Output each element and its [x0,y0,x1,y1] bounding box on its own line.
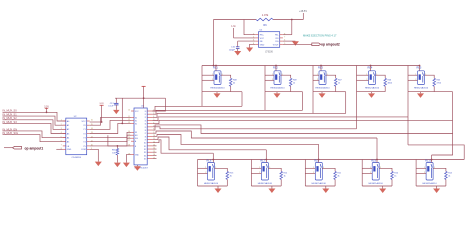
wire RL4 switch to resistor [376,75,386,78]
label C10 [229,47,236,52]
svg-text:Y4: Y4 [83,142,86,144]
svg-text:S3: S3 [135,132,137,134]
svg-text:Y2: Y2 [83,133,86,135]
wire RL6 loop left [197,160,199,187]
svg-text:14: 14 [153,148,155,150]
wire RL4 top pin [370,65,372,71]
wire M4 drop extension [407,117,409,145]
wire RL5 switch to resistor [425,75,435,78]
wire rail to U1 vcc [152,98,165,111]
wire RL5 top pin [419,65,421,71]
pin numbers RL1 [212,74,223,81]
wire RL8 coil pins [305,168,315,173]
wire mux fan top 3 [152,113,345,117]
svg-text:B: B [135,146,137,148]
svg-text:13: 13 [153,145,155,147]
wire RL7 loop left [250,160,252,187]
wire IN_MUX_EN [3,131,66,138]
pin numbers RL8 [313,167,324,174]
pin numbers RL5 [415,74,426,81]
wire RL10 loop bottom [416,185,446,187]
resistor R14 [445,171,448,186]
svg-text:S1: S1 [135,120,137,122]
pin numbers RL9 [370,167,381,174]
wire RL4 loop left [356,66,358,92]
svg-text:SIG: SIG [135,138,139,140]
svg-text:I11: I11 [144,146,146,148]
svg-text:0.1uF: 0.1uF [108,106,114,108]
label RL8 part [312,182,327,185]
svg-text:S2: S2 [135,123,137,125]
svg-text:U1: U1 [141,106,145,108]
net label IN_MUX_SIG [3,131,18,135]
wire 3.3V rail [115,97,166,99]
wire RL6 switch to resistor [215,168,228,171]
wire RL10 loop left [415,160,417,187]
ground at RG [292,41,299,46]
svg-text:4600: 4600 [388,83,393,85]
net label IN_MUX_S2 [3,116,18,120]
wire feed RL6 [212,153,214,159]
svg-text:GND: GND [135,155,140,157]
node 1.3n label [231,26,236,38]
resistor R08 [229,78,232,91]
power +48.5V [299,10,307,20]
label U5 part LT6106 [265,51,273,53]
wire RL3 loop left [312,66,314,92]
label R09 [293,80,298,85]
wire U5 pin1 input [244,20,255,35]
relay RL7 [260,159,268,180]
wire RL1 coil pins [202,75,214,80]
relay RL8 [314,159,322,180]
wire U2 bottom left [56,148,63,150]
wire U2 to U1 y138.2 [90,138,131,146]
wire RL4 coil pins [357,75,369,80]
wire RL9 coil pins [362,168,372,173]
svg-text:3: 3 [61,128,62,130]
label RL3 part [315,87,330,90]
svg-text:A3: A3 [67,132,70,135]
wire mux pin 15 tail [152,154,156,156]
wire mux pin 12 tail [152,145,156,147]
svg-text:HE3621A0510: HE3621A0510 [312,182,327,185]
svg-text:R08: R08 [233,80,238,82]
svg-text:2: 2 [366,79,367,81]
label R07 [338,80,343,85]
wire U5 HS- to rail [283,34,292,36]
svg-text:RL7: RL7 [260,159,265,163]
wire mux fan top 2 [152,110,302,114]
net label IN_MUX_S3 [3,120,18,124]
wire RL10 coil pins [416,168,426,173]
svg-text:Y5: Y5 [83,146,86,148]
svg-text:10: 10 [153,135,155,137]
resistor R12 [280,171,283,186]
svg-text:1: 1 [366,74,367,76]
wire RL2 loop left [264,66,266,92]
svg-text:5: 5 [61,136,62,138]
svg-text:R12: R12 [284,173,289,175]
wire RL8 loop left [304,160,306,187]
svg-text:1k: 1k [394,176,396,178]
svg-text:1.3n: 1.3n [231,26,236,28]
svg-text:HE3621A0510: HE3621A0510 [422,182,437,185]
wire RL2 top pin [275,65,277,71]
svg-text:I7: I7 [145,133,146,135]
wire RL1 top pin [215,65,217,71]
wire mux fan top 1 [152,106,242,111]
ground under C10 [234,51,241,56]
resistor R05 [433,78,436,91]
wire rail drop [121,98,123,124]
ground U5 GND [246,48,253,53]
svg-text:2: 2 [313,172,314,174]
svg-text:12: 12 [128,119,130,121]
svg-text:I10: I10 [144,143,146,145]
label R13 [230,173,235,178]
svg-text:4k: 4k [230,176,232,178]
wire RL9 top pin [376,159,378,163]
svg-text:1.07k: 1.07k [262,13,269,17]
svg-text:1: 1 [61,120,62,122]
svg-text:R07: R07 [338,80,343,82]
label RL10 part [422,182,437,185]
wire RL8 switch to resistor [322,168,335,171]
wire RL1 switch to resistor [221,75,231,78]
label R10 [394,173,399,178]
svg-text:R05: R05 [437,80,442,82]
wire RL7 top pin [265,159,267,163]
wire RL5 coil pins [408,75,418,80]
wire mux fan top 5 [152,120,452,123]
svg-text:12: 12 [153,141,155,143]
wire RL1 loop left [201,66,203,92]
wire mux fan top 6 [152,127,356,129]
svg-text:EN: EN [135,135,138,137]
power 3.3V [44,106,49,113]
svg-text:I8: I8 [145,136,146,138]
svg-text:FB: FB [260,41,263,43]
svg-text:2: 2 [415,79,416,81]
wire U5 pin2 [234,37,256,39]
wire RL5 loop bottom [408,91,434,93]
wire RL5 loop left [407,66,409,92]
wire mux pin 16 tail [152,158,156,160]
svg-text:6: 6 [61,140,62,142]
wire RL10 top pin [431,159,433,163]
wire mux fan bottom 8 [152,131,377,138]
svg-text:17: 17 [153,157,155,159]
svg-text:4750: 4750 [437,83,442,85]
svg-text:op ampout2: op ampout2 [321,43,340,47]
wire RL3 switch to resistor [326,75,336,78]
svg-text:HE3621A0510: HE3621A0510 [414,87,429,90]
ground RL9 [379,186,386,193]
svg-text:HE3621A0510: HE3621A0510 [270,87,285,90]
wire RL2 loop bottom [265,91,291,93]
label R65 [112,149,117,154]
label RL6 part [204,182,219,185]
wire U5 GND pin [250,44,256,47]
wire feed RL8 [318,144,320,159]
svg-text:I9: I9 [145,139,146,141]
resistor R11 [334,171,337,186]
svg-text:1: 1 [205,167,206,169]
pin numbers RL2 [272,74,283,81]
svg-text:13: 13 [128,122,130,124]
svg-text:RS: RS [276,38,280,40]
wire IN_MUX_S3 [3,123,66,133]
svg-text:A0: A0 [67,120,70,123]
svg-text:I2: I2 [145,117,146,119]
label R11 [337,173,341,178]
svg-text:HE3621A0510: HE3621A0510 [315,87,330,90]
svg-text:HS+: HS+ [260,35,265,37]
wire RL10 switch to resistor [433,168,446,171]
svg-text:1: 1 [415,74,416,76]
resistor R65 [116,146,119,163]
wire 48V relay bus [202,65,420,67]
multiplexer U1 [128,106,155,165]
svg-text:1: 1 [212,74,213,76]
comment text [303,34,337,38]
resistor R07 [334,78,337,91]
wire mux fan bottom 9 [152,135,318,145]
wire 48V top rail [214,19,304,21]
svg-text:1: 1 [272,74,273,76]
svg-text:HE3621A0510: HE3621A0510 [204,182,219,185]
svg-text:R65: R65 [112,149,117,151]
ground U2 [95,162,102,167]
wire mux pin 13 tail [152,148,156,150]
svg-text:RL9: RL9 [371,159,376,163]
svg-text:2: 2 [259,172,260,174]
wire RL2 left edge drop [264,92,266,111]
wire RL2 switch to resistor [281,75,291,78]
svg-text:VCC: VCC [260,38,265,40]
wire RL8 top pin [318,159,320,163]
svg-text:I0: I0 [145,111,146,113]
wire right feed [408,145,464,160]
svg-text:1: 1 [424,167,425,169]
svg-text:2: 2 [61,124,62,126]
wire feed RL10 [431,155,433,160]
svg-text:C10: C10 [231,47,236,49]
svg-text:I1: I1 [145,114,146,116]
svg-text:R13: R13 [230,173,235,175]
svg-text:HE3621A0510: HE3621A0510 [258,182,273,185]
svg-text:1: 1 [259,167,260,169]
wire RL2 output drop [291,92,303,111]
pin numbers RL4 [366,74,377,81]
multiplexer U2 [61,116,93,155]
wire U5 pin3 [238,40,256,42]
ground C13 [113,110,120,114]
svg-text:A: A [135,140,137,143]
wire RL5 left edge drop [407,92,409,117]
svg-text:2: 2 [212,79,213,81]
wire U2 gnd [90,149,99,161]
wire RL3 coil pins [313,75,319,80]
ground RL1 [214,92,221,98]
svg-text:16: 16 [153,154,155,156]
pin numbers RL6 [205,167,216,174]
svg-text:R14: R14 [448,173,453,175]
svg-text:11: 11 [128,116,130,118]
relay RL3 [318,66,326,85]
wire U2 to U1 y135.2 [90,135,131,142]
svg-text:VCC: VCC [81,121,86,123]
wire RL1 output drop [231,92,242,107]
wire RL7 switch to resistor [268,168,281,171]
wire to op-amp HS pin [291,20,293,35]
power flag VDD [99,103,104,122]
label R6 value 1.07k [262,13,269,17]
relay RL9 [371,159,379,180]
resistor R6 [256,18,273,21]
svg-text:A1: A1 [67,124,70,127]
wire RL3 left edge drop [312,92,314,114]
wire IN_MUX_S1 [3,116,66,125]
svg-text:1k: 1k [284,176,286,178]
svg-text:R10: R10 [394,173,399,175]
svg-text:I13: I13 [144,152,146,154]
label R14 [448,173,453,178]
wire rail to U1 top [143,98,145,108]
svg-text:GND: GND [260,44,265,46]
svg-text:2: 2 [370,172,371,174]
svg-text:VCC: VCC [135,111,139,113]
label RL7 part [258,182,273,185]
svg-text:7: 7 [284,37,285,39]
svg-text:15: 15 [128,134,130,136]
wire U5 VOUT [283,43,312,45]
svg-text:S0: S0 [135,117,137,119]
wire U1 pull resistor [108,135,131,147]
svg-text:A4: A4 [67,137,70,140]
svg-text:op ampout1: op ampout1 [25,146,44,150]
wire U1 gnd [126,155,131,163]
relay RL6 [207,159,215,180]
relay RL4 [368,66,376,85]
svg-text:2: 2 [272,79,273,81]
wire RL6 coil pins [198,168,208,173]
svg-text:10k: 10k [112,152,115,154]
svg-text:HE3621A0510: HE3621A0510 [369,182,384,185]
capacitor C13 [114,98,118,110]
label RL9 part [369,182,384,185]
wire RL4 loop bottom [357,91,386,93]
relay RL2 [273,66,281,85]
wire mux fan bottom 10 [152,137,266,150]
label U2 part [71,157,81,159]
wire RL1 left edge drop [201,92,203,107]
svg-text:VOUT: VOUT [273,44,280,46]
node junction at R6 right [291,19,293,21]
wire RL8 loop bottom [305,185,335,187]
label R05 [437,80,442,85]
svg-text:1k: 1k [338,83,340,85]
wire U2 to U1 y123.4 [90,123,131,133]
wire flag to U2 vcc [90,121,103,123]
pin numbers RL10 [424,167,435,174]
svg-text:Y0: Y0 [83,125,86,127]
svg-text:HE3621A0510: HE3621A0510 [210,87,225,90]
wire RL2 coil pins [265,75,274,80]
svg-text:COM: COM [81,149,86,151]
net label IN_MUX_S0 [3,109,18,113]
ground RL3 [319,92,326,98]
port op ampout2 [312,43,340,47]
ground R65 [114,163,121,168]
wire U2 to U1 y117.4 [90,117,131,125]
ground RL4 [368,92,375,98]
wire bottom relay bus [198,159,465,161]
resistor R06 [384,78,387,91]
svg-text:11: 11 [153,138,155,140]
svg-text:16: 16 [128,137,130,139]
wire M5 drop extension [452,120,454,133]
wire RL9 loop left [361,160,363,187]
svg-text:1: 1 [313,167,314,169]
svg-text:Y1: Y1 [83,129,86,131]
svg-text:15: 15 [153,151,155,153]
svg-text:I5: I5 [145,127,146,129]
pin numbers RL7 [259,167,270,174]
wire mux fan bottom 7 [152,125,452,134]
relay RL1 [213,66,221,85]
wire RL7 coil pins [251,168,261,173]
svg-text:+48.5V: +48.5V [299,10,307,13]
svg-text:HE3621A0510: HE3621A0510 [365,87,380,90]
label R08 [233,80,238,85]
wire feed RL9 [376,138,378,160]
svg-text:16: 16 [91,120,93,122]
ground U1 left [123,163,130,168]
ground RL6 [215,186,222,193]
wire mux fan top 4 [152,117,408,121]
svg-text:LE: LE [67,146,70,148]
svg-text:10: 10 [128,110,130,112]
pin numbers RL3 [317,74,328,81]
wire RL9 loop bottom [362,185,392,187]
svg-text:I12: I12 [144,149,146,151]
svg-text:R6: R6 [263,24,267,27]
svg-text:2: 2 [205,172,206,174]
svg-text:4k: 4k [337,176,339,178]
net label IN_MUX_EN [3,127,18,131]
net label IN_MUX_S1 [3,113,18,117]
resistor R10 [391,171,394,186]
wire feed RL10 jog [432,134,453,156]
wire U5 RG pin [283,40,296,42]
svg-text:7: 7 [61,145,62,147]
capacitor C10 [236,41,240,51]
svg-text:I15: I15 [144,158,146,160]
svg-text:4k: 4k [448,176,450,178]
wire IN_MUX_S2 [3,120,66,130]
wire RL1 loop bottom [202,91,231,93]
wire RL3 loop bottom [313,91,336,93]
relay RL10 [425,159,433,180]
svg-text:2: 2 [424,172,425,174]
wire U2 to U1 y132.3 [90,132,131,137]
svg-text:LT6106: LT6106 [265,51,273,53]
ground RL8 [322,186,329,193]
svg-text:A5: A5 [67,141,70,144]
svg-text:1: 1 [317,74,318,76]
